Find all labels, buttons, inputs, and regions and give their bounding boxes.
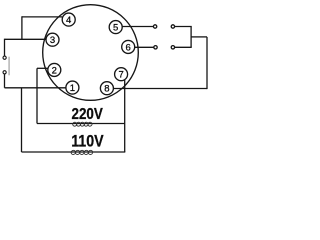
contact J1a <box>153 25 156 28</box>
wire pin8 horizontal <box>113 88 207 90</box>
wire pin6 horizontal <box>135 46 154 48</box>
pin 3 <box>46 33 59 46</box>
svg-text:1: 1 <box>70 83 75 94</box>
pin 1 <box>66 81 79 94</box>
svg-text:7: 7 <box>118 70 123 81</box>
svg-text:3: 3 <box>50 35 55 46</box>
switch S1 lower contact <box>3 71 6 74</box>
wire 110V line <box>22 151 126 153</box>
svg-text:2: 2 <box>52 65 57 76</box>
wire right-edge vertical <box>206 37 208 89</box>
wire 220V line <box>37 123 125 125</box>
wire switch lower lead <box>4 74 6 88</box>
svg-text:110V: 110V <box>71 132 104 151</box>
pin 5 <box>109 21 122 34</box>
coil L1 on 220V tap <box>72 122 93 127</box>
wire vertical pin2-to-220V line <box>36 68 38 123</box>
wire vertical pin4-to-pin3 net <box>21 16 23 39</box>
wire vertical pin7-to-110V end <box>124 80 126 153</box>
wire pin2 horizontal <box>37 67 48 69</box>
svg-text:6: 6 <box>126 42 131 53</box>
svg-text:8: 8 <box>104 84 109 95</box>
wire pin3 horizontal <box>5 38 47 40</box>
wire plug stub <box>191 36 207 38</box>
wire plug bracket vertical <box>190 27 192 48</box>
switch S1 blade (faint) <box>8 57 10 76</box>
switch S1 upper contact <box>3 56 6 59</box>
wire contact-to-bracket lower <box>175 46 192 48</box>
svg-text:5: 5 <box>113 23 118 34</box>
pin 7 <box>115 68 128 81</box>
wire pin4 horizontal <box>22 16 62 18</box>
contact J2a <box>154 46 157 49</box>
wire pin5 horizontal <box>122 26 153 28</box>
pin 8 <box>100 82 113 95</box>
coil L2 on 110V line <box>70 150 93 155</box>
pin 2 <box>48 63 61 76</box>
contact J2b <box>171 46 174 49</box>
pin 6 <box>122 40 135 53</box>
svg-text:220V: 220V <box>72 106 104 123</box>
wire contact-to-bracket upper <box>175 26 192 28</box>
wire pin1 horizontal (node with switch and 110V) <box>5 87 66 89</box>
wire switch upper lead <box>4 39 6 57</box>
contact J1b <box>171 25 174 28</box>
tube socket outline (big circle) <box>43 5 139 101</box>
wire vertical node-to-110V line <box>21 88 23 152</box>
pin 4 <box>62 13 75 26</box>
svg-text:4: 4 <box>66 15 71 26</box>
